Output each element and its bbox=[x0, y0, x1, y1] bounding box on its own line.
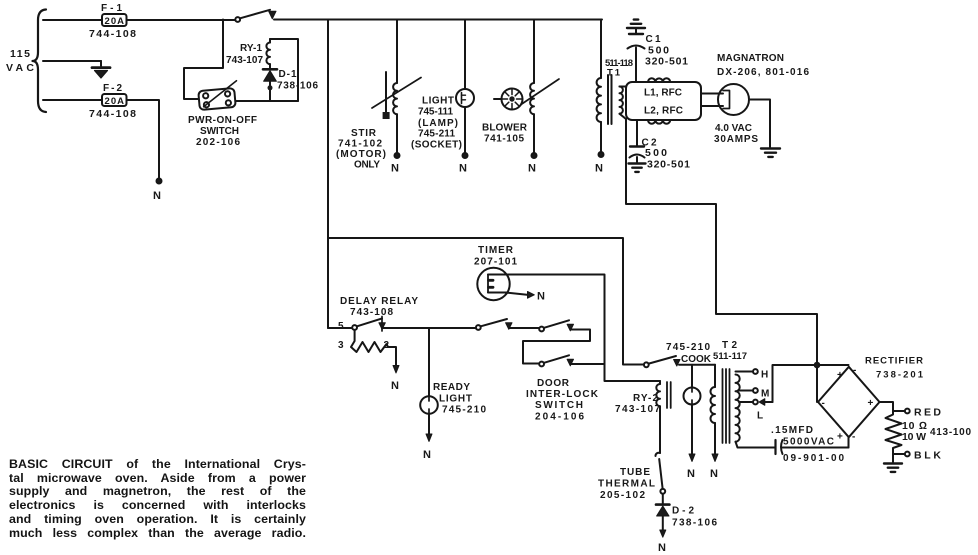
lamp READY LIGHT 745-210 bbox=[420, 396, 438, 414]
relay contact RY-1 on bus bbox=[235, 10, 276, 22]
svg-text:TIMER: TIMER bbox=[478, 245, 514, 256]
svg-text:N: N bbox=[687, 468, 695, 480]
svg-text:MAGNATRON: MAGNATRON bbox=[717, 53, 784, 64]
svg-text:LIGHT: LIGHT bbox=[439, 394, 472, 405]
svg-text:N: N bbox=[459, 163, 467, 175]
wire F-2 to neutral drop bbox=[127, 100, 160, 179]
svg-text:+: + bbox=[837, 370, 843, 381]
svg-text:745-211: 745-211 bbox=[418, 129, 455, 140]
svg-text:738-106: 738-106 bbox=[672, 518, 717, 529]
node 115 VAC source label bbox=[6, 48, 34, 74]
svg-text:511-117: 511-117 bbox=[713, 351, 747, 362]
switch TUBE THERMAL 205-102 bbox=[655, 453, 665, 494]
label C2 500 320-501 bbox=[642, 138, 691, 171]
node N (blower) bbox=[528, 153, 537, 175]
node BLK terminal bbox=[893, 450, 941, 462]
diode D-2 738-106 bbox=[656, 494, 669, 554]
wire T2 primary to neutral arrow bbox=[710, 423, 718, 480]
wire capacitor to bridge bottom bbox=[848, 437, 850, 448]
wire ready light to neutral arrow bbox=[423, 414, 432, 461]
wire RY-1 loop right side and top bbox=[270, 39, 298, 101]
node tap H bbox=[736, 369, 769, 380]
wire bottom line from brace to fuse F-2 bbox=[43, 99, 102, 101]
switch door interlock upper bbox=[539, 320, 573, 331]
inductor L2 RFC bumps bbox=[648, 120, 670, 124]
relay coil RY-1 bbox=[266, 39, 270, 64]
svg-text:DX-206, 801-016: DX-206, 801-016 bbox=[717, 67, 809, 78]
node junction heater/bridge bbox=[815, 363, 820, 368]
wire cook lamp drop bbox=[691, 365, 693, 388]
wire bus from RY-1 contact to T1 bbox=[274, 19, 602, 21]
wire bus from F-1 to relay contact bbox=[127, 19, 236, 21]
node N (T1) bbox=[595, 152, 604, 175]
tube MAGNATRON DX-206 bbox=[718, 84, 749, 115]
svg-text:741-102: 741-102 bbox=[338, 139, 382, 150]
inductor L1 RFC bumps bbox=[648, 78, 670, 82]
svg-text:READY: READY bbox=[433, 382, 470, 393]
svg-text:RY-1: RY-1 bbox=[240, 43, 262, 54]
lamp cook pilot bbox=[684, 388, 701, 405]
svg-text:N: N bbox=[658, 542, 666, 554]
node N (stir) bbox=[391, 153, 400, 175]
svg-text:ONLY: ONLY bbox=[354, 160, 380, 171]
ground (magnetron) bbox=[761, 149, 780, 157]
svg-text:09-901-00: 09-901-00 bbox=[783, 453, 844, 464]
transformer T1 511-118 primary bbox=[597, 78, 601, 122]
choke block L1/L2 RFC outline bbox=[626, 82, 701, 120]
svg-text:202-106: 202-106 bbox=[196, 137, 240, 148]
svg-text:+: + bbox=[868, 398, 874, 409]
fuse F-2 bbox=[102, 94, 127, 107]
svg-text:745-210: 745-210 bbox=[666, 342, 710, 353]
wire T1 primary to neutral bbox=[600, 122, 602, 152]
motor BLOWER 741-105 bbox=[494, 79, 559, 110]
wire RY-2 coil to thermal switch bbox=[659, 406, 661, 453]
label DELAY RELAY 743-108 bbox=[340, 296, 418, 318]
wire PWR switch to RY-1 loop bottom bbox=[236, 100, 298, 102]
blower coil bbox=[530, 83, 534, 114]
label BLOWER 741-105 bbox=[482, 123, 528, 145]
svg-text:5: 5 bbox=[338, 321, 344, 332]
svg-text:743-107: 743-107 bbox=[615, 404, 660, 415]
wire L tap riser to bridge bbox=[773, 365, 849, 402]
wire cook switch to T2 primary bbox=[679, 364, 715, 366]
svg-text:-: - bbox=[822, 398, 825, 409]
wire magnetron anode to ground bbox=[749, 100, 770, 148]
svg-text:738-106: 738-106 bbox=[277, 81, 318, 92]
switch PWR-ON-OFF 202-106 bbox=[198, 81, 239, 110]
svg-text:SWITCH: SWITCH bbox=[200, 126, 239, 137]
transformer T1 core bbox=[608, 75, 612, 124]
switch COOK 745-210 bbox=[623, 356, 680, 367]
svg-text:BLK: BLK bbox=[914, 450, 941, 462]
switch timer cam contact bbox=[476, 319, 512, 330]
node tap L bbox=[739, 399, 773, 422]
svg-text:H: H bbox=[761, 370, 768, 381]
svg-text:N: N bbox=[391, 380, 399, 392]
transformer T2 secondary bbox=[736, 375, 740, 442]
capacitor C2 bbox=[630, 120, 645, 162]
transformer T2 primary bbox=[711, 365, 716, 423]
svg-text:(LAMP): (LAMP) bbox=[418, 118, 458, 129]
wire tee from left vertical to cook drop bbox=[328, 238, 623, 364]
svg-text:PWR-ON-OFF: PWR-ON-OFF bbox=[188, 115, 257, 126]
label 511-118 T1 bbox=[605, 58, 633, 79]
ground (C1 top) bbox=[627, 20, 645, 28]
wire top line from brace to fuse F-1 bbox=[43, 19, 102, 21]
wire stir branch drop bbox=[396, 20, 398, 84]
svg-text:115: 115 bbox=[10, 48, 30, 60]
resistor 10 ohm 10W 413-100 bbox=[886, 411, 902, 462]
node RED terminal bbox=[893, 407, 941, 419]
svg-text:-: - bbox=[852, 432, 855, 443]
label 745-210 COOK bbox=[666, 342, 712, 365]
relay contact delay relay (pin 5) bbox=[338, 317, 385, 333]
caption text bbox=[9, 458, 306, 540]
switch door interlock lower bbox=[523, 355, 574, 366]
motor TIMER 207-101 bbox=[477, 268, 509, 300]
svg-text:744-108: 744-108 bbox=[89, 28, 136, 40]
svg-text:COOK: COOK bbox=[681, 354, 712, 365]
svg-text:(SOCKET): (SOCKET) bbox=[411, 140, 462, 151]
wire heater return (RFC corner to bridge) bbox=[626, 119, 817, 402]
ground (output) bbox=[884, 464, 902, 472]
svg-text:RECTIFIER: RECTIFIER bbox=[865, 356, 923, 367]
svg-text:RED: RED bbox=[914, 407, 941, 419]
svg-text:SWITCH: SWITCH bbox=[535, 400, 583, 411]
label 4.0 VAC 30AMPS bbox=[714, 123, 758, 145]
svg-text:TUBE: TUBE bbox=[620, 467, 650, 478]
svg-text:-: - bbox=[853, 365, 856, 376]
label RECTIFIER 738-201 bbox=[865, 356, 924, 381]
svg-text:413-100: 413-100 bbox=[930, 427, 971, 438]
svg-text:N: N bbox=[153, 190, 161, 202]
label READY LIGHT 745-210 bbox=[433, 382, 486, 416]
svg-text:N: N bbox=[710, 468, 718, 480]
svg-text:+: + bbox=[837, 432, 843, 443]
capacitor C1 bbox=[628, 29, 645, 82]
motor STIR 741-102 coil bbox=[393, 83, 397, 114]
svg-text:745-111: 745-111 bbox=[418, 107, 453, 118]
wire bridge output bbox=[880, 402, 894, 411]
svg-text:738-201: 738-201 bbox=[876, 370, 924, 381]
svg-text:207-101: 207-101 bbox=[474, 257, 517, 268]
relay coil RY-2 743-107 bbox=[656, 381, 670, 408]
svg-text:205-102: 205-102 bbox=[600, 490, 645, 501]
transformer T2 core bbox=[723, 369, 730, 443]
label STIR 741-102 (MOTOR) ONLY bbox=[336, 128, 386, 171]
svg-text:743-107: 743-107 bbox=[226, 55, 263, 66]
wire blower to neutral bbox=[533, 114, 535, 153]
wire light to neutral bbox=[464, 107, 466, 153]
svg-text:RY-2: RY-2 bbox=[633, 393, 658, 404]
svg-text:L: L bbox=[757, 411, 763, 422]
svg-text:F-2: F-2 bbox=[103, 83, 122, 94]
svg-text:BLOWER: BLOWER bbox=[482, 123, 528, 134]
wire middle stub to chassis bbox=[43, 60, 101, 62]
wire timer switch to door switch 1 bbox=[509, 327, 539, 329]
label LIGHT 745-111 (LAMP) 745-211 (SOCKET) bbox=[411, 96, 462, 151]
ground (C2) bbox=[629, 164, 646, 172]
svg-text:20A: 20A bbox=[105, 96, 125, 107]
svg-text:741-105: 741-105 bbox=[484, 134, 524, 145]
label MAGNATRON DX-206, 801-016 bbox=[717, 53, 809, 78]
svg-text:DELAY RELAY: DELAY RELAY bbox=[340, 296, 418, 307]
label D-2 738-106 bbox=[672, 506, 717, 529]
lamp LIGHT 745-111 bbox=[456, 89, 474, 107]
wire magnetron filament pins bbox=[701, 94, 723, 107]
rectifier bridge 738-201 bbox=[818, 365, 880, 443]
label 10ohm 10W 413-100 bbox=[902, 420, 971, 443]
wire ready light drop bbox=[428, 328, 430, 397]
transformer T1 secondary bbox=[620, 87, 627, 120]
fuse F-1 bbox=[102, 14, 127, 27]
brace 115 VAC bbox=[33, 10, 47, 113]
svg-text:THERMAL: THERMAL bbox=[598, 479, 655, 490]
label C1 500 320-501 bbox=[645, 34, 688, 68]
svg-text:3: 3 bbox=[338, 340, 344, 351]
label T2 511-117 bbox=[713, 340, 747, 362]
wire blower branch drop bbox=[533, 20, 535, 84]
wire door switch 2 output to RY-2 node bbox=[571, 363, 605, 365]
svg-text:D-1: D-1 bbox=[279, 69, 297, 80]
svg-text:LIGHT: LIGHT bbox=[422, 96, 454, 107]
label DOOR INTER-LOCK SWITCH 204-106 bbox=[526, 378, 599, 423]
wire stir to neutral bbox=[396, 114, 398, 153]
svg-text:744-108: 744-108 bbox=[89, 108, 136, 120]
svg-text:T2: T2 bbox=[722, 340, 737, 351]
svg-text:500: 500 bbox=[645, 147, 667, 159]
svg-text:D-2: D-2 bbox=[672, 506, 694, 517]
label TUBE THERMAL 205-102 bbox=[598, 467, 655, 501]
wire cook lamp to neutral arrow bbox=[687, 405, 695, 481]
node N (light) bbox=[459, 153, 468, 175]
wire T2 secondary bottom to HV capacitor bbox=[736, 442, 775, 448]
svg-text:M: M bbox=[761, 389, 769, 400]
svg-text:L1, RFC: L1, RFC bbox=[644, 88, 682, 99]
svg-text:30AMPS: 30AMPS bbox=[714, 134, 758, 145]
wire long left vertical from bus bbox=[327, 20, 329, 329]
svg-text:20A: 20A bbox=[105, 16, 125, 27]
wire T1 primary drop bbox=[600, 20, 602, 79]
stir switch arm bbox=[372, 72, 421, 119]
svg-text:VAC: VAC bbox=[6, 62, 34, 74]
label PWR-ON-OFF SWITCH 202-106 bbox=[188, 115, 257, 148]
wire bus drop to PWR switch bbox=[184, 20, 223, 100]
label RY-2 743-107 bbox=[615, 393, 660, 415]
svg-text:DOOR: DOOR bbox=[537, 378, 570, 389]
wire timer to neutral arrow bbox=[488, 291, 545, 303]
node tap M bbox=[739, 388, 769, 399]
svg-text:N: N bbox=[595, 163, 603, 175]
label TIMER 207-101 bbox=[474, 245, 517, 268]
relay coil delay relay (pins 3-2) bbox=[338, 330, 399, 392]
svg-text:T1: T1 bbox=[607, 68, 621, 79]
svg-text:204-106: 204-106 bbox=[535, 412, 584, 423]
svg-text:320-501: 320-501 bbox=[647, 159, 690, 171]
svg-text:STIR: STIR bbox=[351, 128, 377, 139]
capacitor .15MFD 5000VAC 09-901-00 bbox=[776, 440, 849, 454]
svg-text:N: N bbox=[391, 163, 399, 175]
node N (F-2 neutral) bbox=[153, 179, 162, 203]
svg-text:N: N bbox=[528, 163, 536, 175]
svg-text:320-501: 320-501 bbox=[645, 56, 688, 68]
wire delay relay row start bbox=[328, 327, 352, 329]
wire timer to RY-2 feed vertical bbox=[488, 275, 660, 382]
svg-text:.15MFD: .15MFD bbox=[771, 425, 813, 436]
svg-text:745-210: 745-210 bbox=[442, 405, 486, 416]
ground chassis (115VAC center) bbox=[92, 61, 110, 78]
wire delay relay contact to timer switch bbox=[382, 327, 476, 329]
diode D-1 bbox=[263, 64, 277, 101]
svg-text:N: N bbox=[423, 449, 431, 461]
svg-text:743-108: 743-108 bbox=[350, 307, 393, 318]
svg-text:10 W: 10 W bbox=[902, 431, 926, 443]
svg-text:N: N bbox=[537, 291, 545, 303]
svg-text:(MOTOR): (MOTOR) bbox=[336, 149, 386, 160]
svg-text:5000VAC: 5000VAC bbox=[783, 437, 834, 448]
svg-text:L2, RFC: L2, RFC bbox=[644, 106, 683, 117]
svg-text:INTER-LOCK: INTER-LOCK bbox=[526, 389, 599, 400]
wire light branch drop bbox=[464, 20, 466, 90]
label .15MFD 5000VAC 09-901-00 bbox=[771, 425, 844, 464]
svg-text:4.0 VAC: 4.0 VAC bbox=[715, 123, 752, 134]
svg-text:C1: C1 bbox=[646, 34, 661, 45]
wire door switch 1 to door switch 2 (jog) bbox=[523, 330, 590, 364]
svg-text:F-1: F-1 bbox=[101, 3, 122, 14]
